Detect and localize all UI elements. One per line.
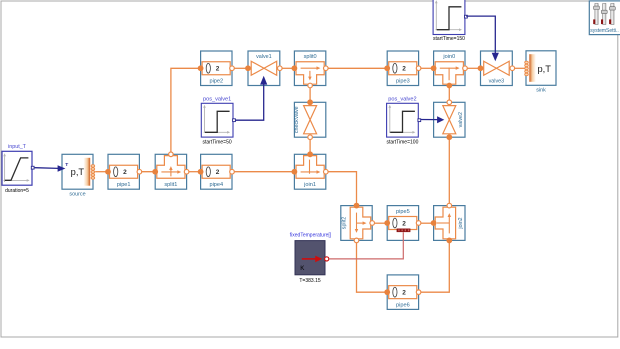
wire pipe2->valve1 [232,67,248,69]
wire split2 -> pipe5 [372,222,387,224]
svg-text:join0: join0 [442,54,455,60]
wire join0 -> valve3 [465,67,481,69]
svg-text:valve1: valve1 [256,54,272,60]
svg-text:pipe1: pipe1 [117,182,131,188]
wire valve1->split0 [280,67,295,69]
wire checkValve bottom -> join1 top [309,137,311,154]
svg-text:pos_valve2: pos_valve2 [388,97,416,103]
svg-text:valve3: valve3 [489,79,505,85]
svg-text:source: source [69,192,85,198]
svg-text:pos_valve1: pos_valve1 [203,97,231,103]
junction join2 [431,203,465,243]
wire pipe4->join1 [232,171,294,173]
svg-text:p,T: p,T [71,167,85,177]
pipe pipe5 with wall heat port [384,206,421,241]
step block pos_valve3 [433,0,467,35]
svg-text:split2: split2 [342,217,348,229]
svg-text:split1: split1 [164,182,177,188]
wire split0 bottom -> checkValve top [309,86,311,103]
ramp block input_T [2,144,34,194]
svg-text:T=383.15: T=383.15 [299,278,320,284]
svg-text:2: 2 [216,66,220,73]
svg-text:valve2: valve2 [458,112,464,127]
wire split0->pipe3 [326,67,387,69]
splitter split0 [292,51,329,88]
svg-text:T: T [65,162,68,168]
valve valve2 [434,100,465,140]
svg-text:fixedTemperature[]: fixedTemperature[] [290,233,332,239]
svg-text:2: 2 [402,66,406,73]
wire pipe5 -> join2 [419,222,434,224]
svg-text:2: 2 [402,290,406,297]
step block pos_valve1 [201,97,235,137]
svg-text:split0: split0 [304,54,317,60]
wire join1 -> split2 top [326,172,357,206]
svg-text:systemSetti..: systemSetti.. [590,28,619,34]
wire valve2 top -> join0 bottom [448,86,450,103]
junction join1 [292,151,329,189]
signal wire pos_valve1 -> valve1 [235,84,264,121]
signal wire input_T -> source [35,167,59,170]
svg-text:join2: join2 [458,217,464,229]
pipe pipe3 [384,51,421,86]
svg-text:join1: join1 [303,182,316,188]
svg-text:checkValve: checkValve [294,106,300,133]
system settings block systemSettings [589,1,620,35]
svg-text:pipe4: pipe4 [209,182,223,188]
step block pos_valve2 [387,97,421,137]
svg-text:sink: sink [536,87,546,93]
wire pipe1->split1 [139,171,155,173]
splitter split2 [341,203,375,243]
valve valve1 [245,51,282,86]
svg-text:2: 2 [123,169,127,176]
fixed temperature source fixedTemperature [290,233,332,275]
wire join2 top -> valve2 bottom [448,137,450,205]
pipe pipe1 [105,154,142,189]
svg-text:pipe3: pipe3 [396,79,410,85]
valve valve3 [478,51,515,86]
junction join0 [431,51,468,88]
svg-text:p,T: p,T [537,64,551,74]
svg-text:2: 2 [402,220,406,227]
wire split1->pipe4 [187,171,201,173]
svg-text:2: 2 [216,169,220,176]
heat wire fixedTemperature -> pipe5 heat port [329,232,404,259]
svg-text:startTime=150: startTime=150 [433,36,465,42]
svg-text:startTime=100: startTime=100 [386,139,418,145]
wire pipe3 -> join0 [419,67,434,69]
pipe pipe2 [198,51,235,86]
wire valve3 -> sink [512,67,526,69]
svg-text:pipe6: pipe6 [396,302,410,308]
boundary sink (p,T) [525,51,556,94]
svg-text:startTime=50: startTime=50 [203,139,232,145]
boundary source (p,T) [62,154,95,197]
signal wire pos_valve3 -> valve3 [466,16,495,53]
pipe pipe4 [198,154,235,189]
svg-text:duration=5: duration=5 [5,188,29,194]
wire source->pipe1 [95,171,108,173]
check valve checkValve [294,99,326,139]
wire split2 bottom -> pipe6 [357,240,388,292]
wire pipe6 -> join2 bottom [419,240,450,292]
svg-text:pipe5: pipe5 [396,209,410,215]
signal wire pos_valve2 -> valve2 [420,119,438,121]
svg-text:pipe2: pipe2 [209,79,223,85]
svg-text:input_T: input_T [8,144,27,150]
pipe pipe6 [384,275,421,310]
splitter split1 [152,152,189,189]
wire split1 top -> pipe2 [171,68,201,154]
